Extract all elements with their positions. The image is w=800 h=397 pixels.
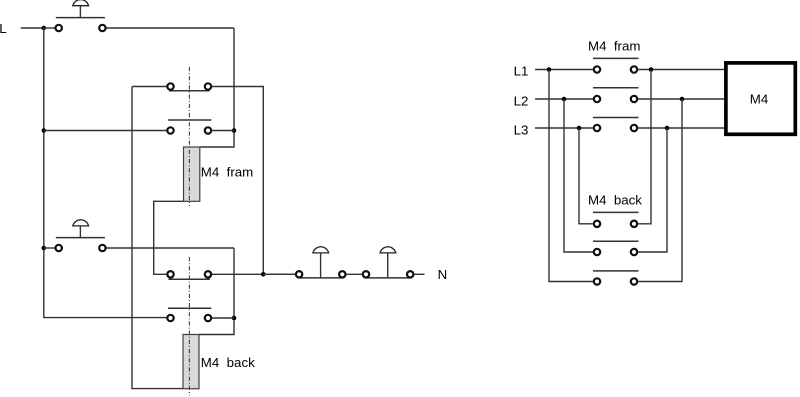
label M4 back [201, 355, 255, 370]
pushbutton SB4 (NO start back) [363, 247, 414, 278]
junction L2 out [680, 97, 685, 102]
contact M4 fram NC interlock (row F) [167, 308, 211, 321]
contact M4 fram pole 3 [593, 118, 639, 132]
junction L1 tap [547, 67, 552, 72]
contact M4 back pole 2 [593, 241, 639, 255]
wire L1 tap down to back pole 3 [549, 70, 593, 282]
contact M4 back pole 3 [593, 271, 639, 285]
wire back pole 2 up to L3 out [638, 128, 667, 252]
contact M4 back pole 1 [593, 212, 639, 227]
coil M4 back [183, 335, 199, 389]
wire row B right to down column [212, 87, 263, 275]
junction second column / row F [232, 316, 237, 321]
svg-text:L2: L2 [514, 93, 529, 108]
pushbutton SB3 (NO start fram) [296, 247, 346, 278]
pushbutton SB2 (NC stop) [56, 220, 106, 251]
wire left rail to start button SB2 [44, 247, 55, 249]
svg-text:M4 back: M4 back [588, 193, 642, 208]
svg-text:M4 fram: M4 fram [588, 38, 640, 53]
svg-text:L3: L3 [514, 123, 529, 138]
contact M4 back NO aux hold (row B) [167, 83, 211, 91]
node L3 [514, 123, 529, 138]
label M4 fram contactor [588, 38, 640, 53]
wire SB1 to right column [106, 27, 234, 29]
svg-text:M4 back: M4 back [201, 355, 255, 370]
label M4 fram [201, 164, 253, 179]
junction L3 out [665, 126, 670, 131]
wire L3 to contact [535, 127, 593, 129]
wire right column down to coil M4 fram [200, 28, 234, 147]
centerline M4 back [188, 257, 190, 396]
wire junction to stop button SB1 [44, 27, 55, 29]
wire row C from left rail [44, 130, 167, 132]
wire row C right to junction [212, 130, 234, 132]
wire row E right to N row [212, 273, 295, 275]
wire second column down to coil M4 back [199, 248, 234, 335]
svg-text:M4: M4 [750, 91, 768, 106]
left rail wire [44, 28, 167, 318]
wire L to junction [21, 27, 44, 29]
wire L2 contact to motor [638, 98, 724, 100]
contact M4 fram pole 1 [593, 58, 639, 72]
wire between start buttons [346, 273, 362, 275]
wire L2 tap down to back pole 2 [564, 99, 593, 252]
node L2 [514, 93, 529, 108]
wire to N [414, 273, 424, 275]
wire SB2 to second column [106, 247, 234, 249]
motor M4 box [726, 63, 795, 134]
svg-text:M4 fram: M4 fram [201, 164, 253, 179]
svg-text:L1: L1 [514, 64, 529, 79]
junction left rail row C [42, 128, 47, 133]
centerline M4 fram [188, 67, 190, 206]
node N [438, 267, 448, 282]
junction N row / aux column [261, 272, 266, 277]
contact M4 fram pole 2 [593, 88, 639, 102]
wire coil M4 fram bottom to row E [154, 201, 184, 274]
junction L3 tap [577, 126, 582, 131]
junction L2 tap [562, 97, 567, 102]
label M4 back contactor [588, 193, 642, 208]
wire back pole 1 up to L1 out [638, 70, 651, 224]
wire row B left to contact [132, 86, 167, 88]
wire N row to start button SB3 [263, 273, 295, 275]
wire L1 contact to motor [638, 69, 724, 71]
junction L1 out [649, 67, 654, 72]
wire L3 contact to motor [638, 127, 724, 129]
node L1 [514, 64, 529, 79]
wire back pole 3 up to L2 out [638, 99, 682, 282]
junction at L rail top [42, 26, 47, 31]
junction right column / NC interlock row [232, 128, 237, 133]
node L [0, 21, 7, 36]
wire L3 tap down to back pole 1 [579, 128, 593, 224]
junction left rail row D [42, 246, 47, 251]
svg-text:N: N [438, 267, 448, 282]
wire row F right to junction [212, 317, 234, 319]
pushbutton SB1 (NC stop) [56, 0, 106, 31]
wire L2 to contact [535, 98, 593, 100]
coil M4 fram [184, 147, 200, 201]
contact M4 fram NO aux hold (row E) [167, 271, 211, 279]
contact M4 back NC interlock (row C) [167, 120, 211, 134]
svg-text:L: L [0, 21, 7, 36]
wire row B left column down to coil M4 back bottom [132, 87, 183, 389]
wire L1 to contact [535, 69, 593, 71]
